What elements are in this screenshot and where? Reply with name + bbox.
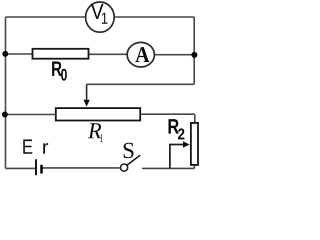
wire R2 bottom stub — [193, 165, 195, 169]
wire top right segment — [114, 16, 194, 18]
node junction dot right — [191, 52, 197, 58]
rheostat R1 wiper arrow — [83, 84, 89, 106]
wire R1 to corner — [140, 113, 195, 115]
wire top left segment — [6, 16, 86, 18]
wire R1 row left — [6, 114, 56, 116]
R2 wiper arrow — [170, 141, 190, 168]
wire bottom right segment — [142, 167, 194, 169]
battery E r — [23, 140, 48, 176]
ammeter A — [127, 42, 154, 67]
wire ammeter to right node — [154, 54, 194, 56]
wire left vertical — [5, 17, 7, 168]
voltmeter V1 — [86, 2, 115, 32]
node junction dot left lower — [2, 112, 8, 118]
rheostat R1 — [56, 108, 140, 142]
resistor R0 — [33, 49, 89, 81]
node junction dot left upper — [2, 51, 8, 57]
potentiometer R2 — [169, 119, 199, 165]
wire battery to left vertical — [6, 167, 36, 169]
wire R0 row left — [6, 53, 33, 55]
wire R0 to ammeter — [89, 53, 128, 55]
wire right vertical — [193, 17, 195, 84]
wire wiper feed horizontal — [87, 83, 195, 85]
wire down to R2 top — [194, 114, 196, 123]
wire switch to battery — [42, 167, 120, 169]
switch S — [121, 143, 141, 171]
